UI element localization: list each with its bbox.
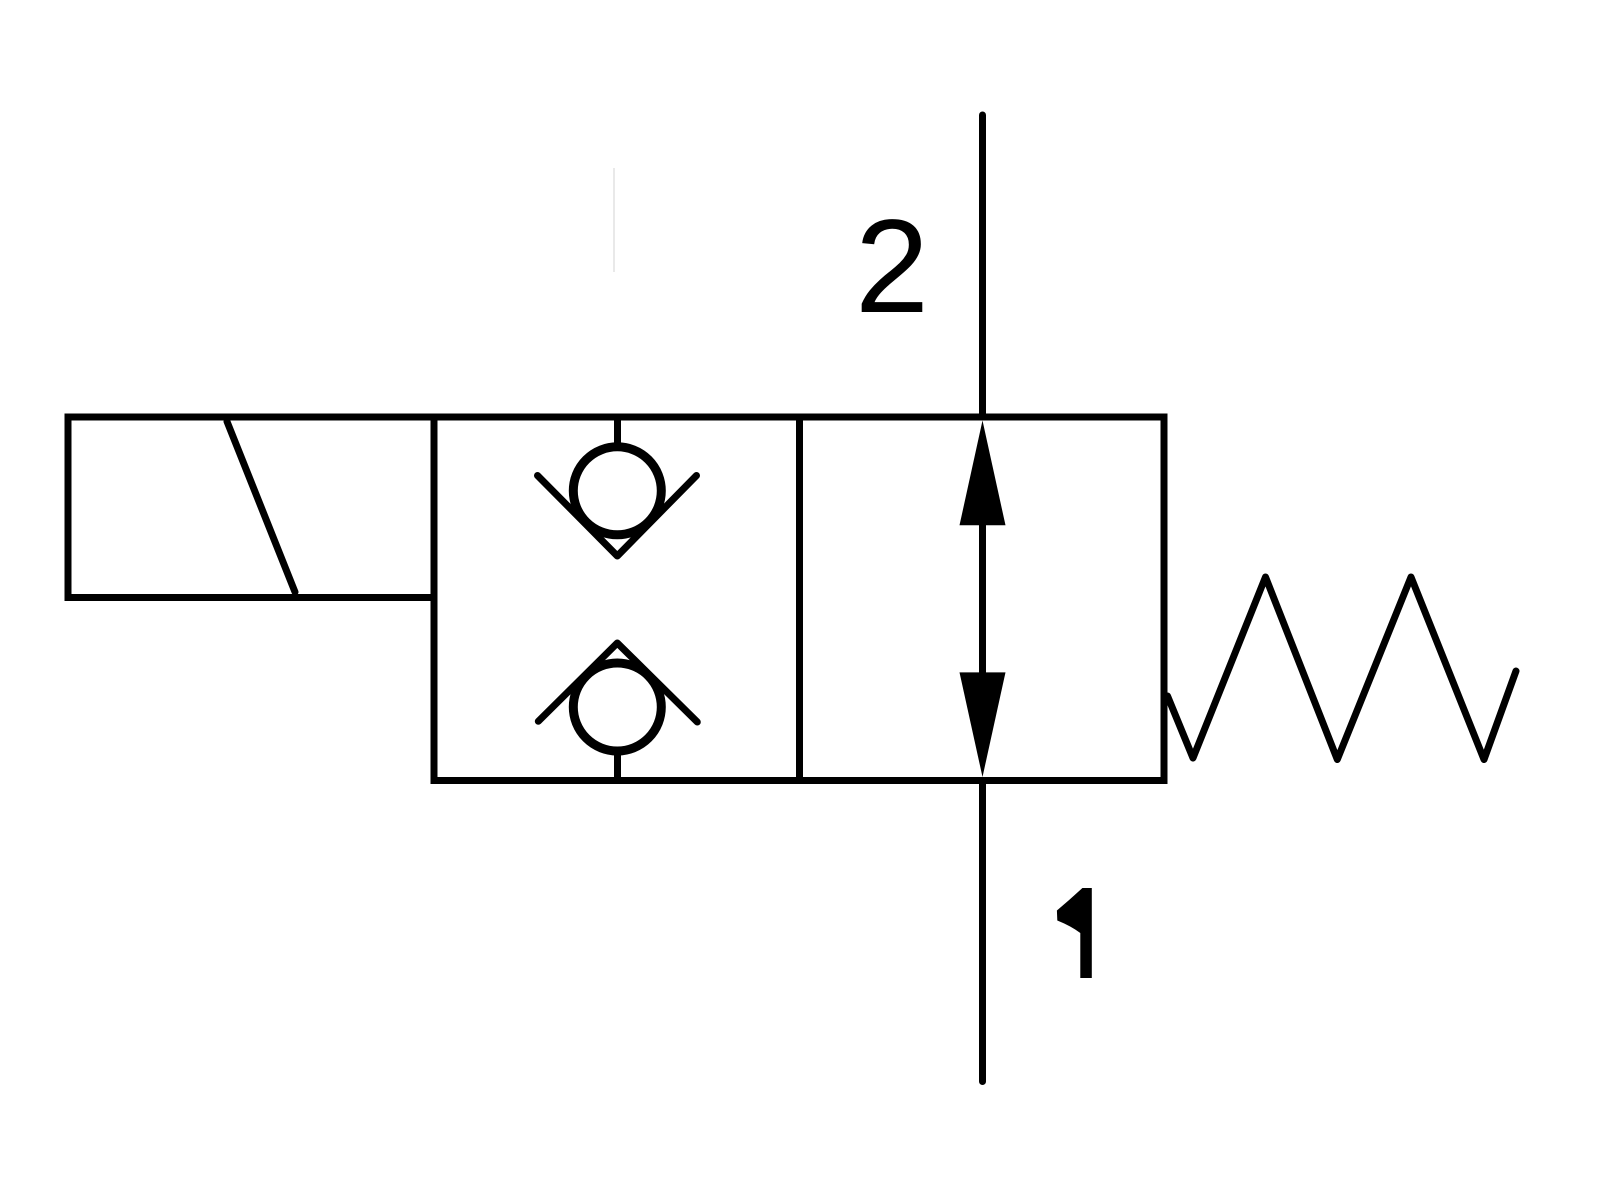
check valve CV2 ball [573,663,661,751]
solenoid actuator box [68,417,434,598]
valve position box left (check valves) [434,417,800,781]
check valve CV1 seat [538,476,697,557]
check valve CV1 ball [573,447,661,535]
stray scan mark [613,168,615,272]
valve position box right (flow path) [800,417,1165,781]
check valve CV2 stub [614,751,621,781]
port 1 label [1057,888,1092,978]
check valve CV1 stub [614,417,621,447]
check valve CV2 seat [538,643,697,722]
flow arrow down head [960,672,1006,777]
svg-text:2: 2 [855,193,929,341]
spring [1168,577,1517,760]
flow arrow up head [960,421,1006,526]
port 2 line [979,115,986,417]
port 1 line [979,781,986,1082]
solenoid diagonal stroke [227,422,295,593]
flow arrow shaft [979,523,986,675]
